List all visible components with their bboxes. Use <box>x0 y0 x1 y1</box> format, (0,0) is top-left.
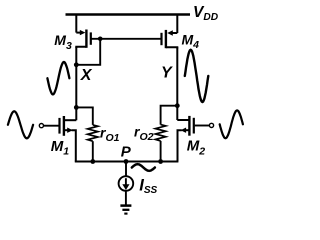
junction rO1 tap on node X <box>74 105 79 110</box>
waveform at node Y <box>185 50 209 102</box>
wire ISS to ground <box>125 191 127 205</box>
current source ISS <box>119 176 134 191</box>
svg-text:VDD: VDD <box>193 4 219 23</box>
waveform input Vin1 <box>8 111 33 138</box>
svg-text:M2: M2 <box>187 138 206 158</box>
node Y junction (rO2 tap) <box>175 103 180 108</box>
wire node Y vertical <box>176 47 178 120</box>
wire node X vertical <box>75 47 77 120</box>
wire VDD rail <box>66 13 191 16</box>
svg-text:P: P <box>121 144 132 161</box>
transistor M4 <box>162 14 178 49</box>
wire M3 gate to M4 gate bus <box>91 38 161 40</box>
waveform input Vin2 <box>220 110 243 138</box>
waveform at node P (tilde) <box>132 164 155 171</box>
svg-text:M1: M1 <box>51 138 70 158</box>
svg-text:M3: M3 <box>54 32 72 52</box>
wire P to current source <box>125 162 127 177</box>
svg-text:Y: Y <box>161 64 173 81</box>
wire diode connection M3 gate to node X <box>76 39 100 65</box>
resistor rO1 <box>76 107 98 161</box>
waveform at node X <box>47 62 69 94</box>
transistor M1 <box>44 116 77 162</box>
svg-text:X: X <box>80 67 93 84</box>
transistor M3 <box>76 14 91 49</box>
input terminal of M2 <box>209 123 213 127</box>
node P junction <box>124 159 129 164</box>
svg-text:M4: M4 <box>182 32 200 52</box>
transistor M2 <box>177 116 209 162</box>
input terminal of M1 <box>39 124 43 128</box>
svg-text:ISS: ISS <box>139 177 157 196</box>
svg-text:rO1: rO1 <box>100 124 120 143</box>
ground <box>120 206 131 214</box>
wire tail rail (M1/M2 sources to P) <box>75 160 179 162</box>
resistor rO2 <box>155 106 177 162</box>
node X junction <box>74 62 79 67</box>
junction rO2 bottom <box>158 159 163 164</box>
junction on gate bus <box>98 37 103 42</box>
junction rO1 bottom <box>90 159 95 164</box>
svg-text:rO2: rO2 <box>134 123 154 142</box>
